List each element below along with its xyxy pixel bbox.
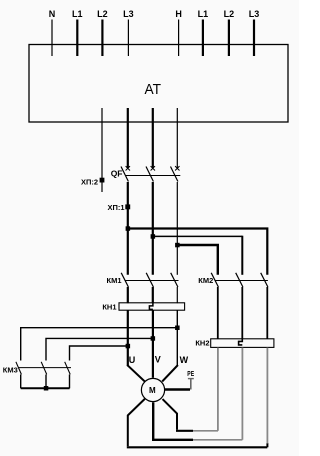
junction U to KM3 wire xyxy=(126,344,131,349)
svg-text:QF: QF xyxy=(111,169,123,179)
node XП:2 terminal square xyxy=(81,178,104,187)
KM3 linkage bar and label xyxy=(3,365,71,374)
wire V tap to KM3 pole 2 xyxy=(46,338,153,360)
wire phase B from QF to KM1 xyxy=(152,182,154,275)
wire phase B from AT to QF xyxy=(152,108,154,168)
label U xyxy=(129,355,136,365)
svg-text:H: H xyxy=(175,9,182,19)
wire KH2 pole 2 down (grey) xyxy=(241,348,243,440)
wire V from KH1 to motor xyxy=(152,310,154,378)
circuit breaker QF pole 1 xyxy=(121,166,130,181)
contactor KM3 pole 3 xyxy=(65,362,71,389)
wire KH2 pole 3 down (grey) xyxy=(266,348,268,444)
svg-text:КМ1: КМ1 xyxy=(107,276,122,285)
node XП:1 terminal square xyxy=(107,203,130,212)
circuit breaker QF pole 2 xyxy=(146,166,155,181)
wire phase B to KM2 pole 2 xyxy=(153,236,243,275)
contactor KM1 pole 3 xyxy=(171,273,178,303)
autotransformer AT xyxy=(29,45,288,123)
svg-text:N: N xyxy=(49,9,56,19)
svg-text:L1: L1 xyxy=(198,9,209,19)
terminal L2 (right input) xyxy=(224,9,235,56)
junction W to KM3 wire xyxy=(175,326,180,331)
terminal L1 (right input) xyxy=(198,9,209,56)
svg-text:W: W xyxy=(180,355,189,365)
terminal L1 (left input) xyxy=(72,9,83,56)
svg-text:L3: L3 xyxy=(123,9,134,19)
wire phase C from AT to QF xyxy=(176,108,178,168)
contactor KM1 pole 1 xyxy=(121,273,128,303)
svg-text:КН2: КН2 xyxy=(195,339,209,348)
label V xyxy=(155,354,161,364)
svg-text:L2: L2 xyxy=(97,9,108,19)
contactor KM1 pole 2 xyxy=(146,273,153,303)
circuit breaker QF pole 3 xyxy=(171,166,180,181)
svg-text:КН1: КН1 xyxy=(102,302,116,311)
wire phase A from AT to QF xyxy=(127,108,129,168)
wire PE from motor xyxy=(164,388,190,390)
motor M1 xyxy=(141,378,164,401)
svg-text:V: V xyxy=(155,354,161,364)
terminal L3 (right input) xyxy=(249,9,260,56)
wire motor tail 3 (lower-right) to KH2 pole 1 xyxy=(163,399,219,431)
wire W tap to KM3 pole 1 xyxy=(21,328,178,361)
PE terminal xyxy=(187,369,194,390)
svg-text:КМ3: КМ3 xyxy=(3,365,18,374)
junction V to KM3 wire xyxy=(151,336,156,341)
svg-text:М: М xyxy=(149,386,156,395)
terminal N (left input) xyxy=(49,9,56,56)
svg-text:ХП:1: ХП:1 xyxy=(107,203,124,212)
KM2 linkage bar and label xyxy=(198,276,268,285)
wire U tap to KM3 pole 3 xyxy=(70,346,128,361)
KM1 linkage bar and label xyxy=(107,276,179,285)
svg-text:PE: PE xyxy=(187,369,194,378)
terminal L3 (left input) xyxy=(123,9,134,56)
wire W from KH1 to motor xyxy=(162,310,178,381)
wire phase C to KM2 pole 1 xyxy=(177,245,218,275)
svg-text:AT: AT xyxy=(145,81,162,98)
terminal L2 (left input) xyxy=(97,9,108,56)
wire phase C from QF to KM1 xyxy=(176,182,178,275)
wire motor tail 2 (bottom) to KH2 pole 2 xyxy=(152,402,242,440)
wire U from KH1 to motor xyxy=(127,310,145,381)
svg-text:L2: L2 xyxy=(224,9,235,19)
svg-text:L1: L1 xyxy=(72,9,83,19)
thermal relay KH2 xyxy=(195,339,274,348)
junction star point xyxy=(44,386,49,391)
QF linkage bar xyxy=(111,169,181,179)
contactor KM3 pole 2 xyxy=(41,362,47,389)
svg-text:ХП:2: ХП:2 xyxy=(81,178,98,187)
label W xyxy=(180,355,189,365)
terminal H (right input) xyxy=(175,9,182,56)
junction C-KM2 xyxy=(175,243,180,248)
svg-text:U: U xyxy=(129,355,136,365)
junction A-KM2 xyxy=(126,226,131,231)
svg-text:L3: L3 xyxy=(249,9,260,19)
contactor KM2 pole 1 xyxy=(211,273,218,339)
junction B-KM2 xyxy=(151,234,156,239)
wire motor tail 1 (lower-left) to KH2 pole 3 xyxy=(127,399,268,447)
thermal relay KH1 xyxy=(102,302,184,311)
wire KH2 pole 1 down (grey) xyxy=(217,348,219,431)
wire phase A to KM2 pole 3 xyxy=(128,229,267,275)
contactor KM2 pole 2 xyxy=(236,273,243,339)
contactor KM3 pole 1 xyxy=(16,362,22,389)
contactor KM2 pole 3 xyxy=(261,273,268,339)
wire N output of AT xyxy=(101,108,103,192)
wire phase A from QF to KM1 xyxy=(127,182,129,275)
svg-text:КМ2: КМ2 xyxy=(198,276,213,285)
wire star bar of KM3 xyxy=(21,387,70,389)
